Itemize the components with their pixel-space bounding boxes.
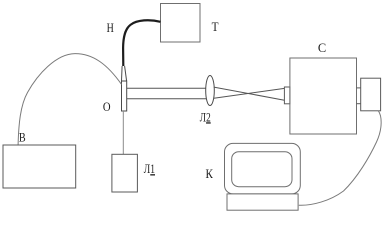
svg-text:Л1: Л1	[144, 161, 155, 176]
beam upper line O to L2	[127, 87, 207, 89]
box T (thermostat)	[161, 4, 201, 43]
beam lower line O to L2	[127, 98, 207, 100]
computer screen inner	[232, 152, 292, 187]
rod from sensor O to lens L1	[122, 111, 124, 154]
cable from side unit to computer K	[299, 111, 381, 205]
lens Л2 (ellipse)	[206, 76, 215, 106]
svg-text:Н: Н	[107, 20, 114, 35]
sensor O body	[122, 81, 127, 111]
svg-text:Т: Т	[212, 19, 219, 34]
computer monitor outer	[225, 143, 301, 194]
converging beam line B (up)	[214, 88, 285, 98]
box Л1 (lamp)	[112, 154, 137, 192]
computer base	[227, 194, 298, 210]
side unit box on right of C	[361, 78, 381, 111]
thick cable from T box to sensor O	[123, 20, 160, 66]
entrance slit window on C	[284, 87, 290, 104]
svg-text:Л2: Л2	[200, 109, 211, 124]
connector pin lower between C and side unit	[357, 103, 361, 105]
box С (spectrometer)	[290, 58, 357, 134]
svg-text:С: С	[318, 40, 326, 55]
svg-text:В: В	[19, 129, 26, 144]
cable from B box to sensor O	[18, 54, 122, 145]
svg-text:О: О	[103, 99, 111, 114]
sensor O tip (tapered)	[122, 66, 127, 81]
converging beam line A (down)	[214, 87, 285, 100]
box В (power supply)	[3, 145, 76, 188]
svg-text:К: К	[206, 166, 214, 181]
connector pin upper between C and side unit	[357, 87, 361, 89]
